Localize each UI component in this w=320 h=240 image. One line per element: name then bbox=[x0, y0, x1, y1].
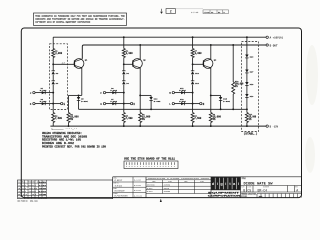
wire clamp diode to bus stage 3 bbox=[220, 100, 222, 109]
resistor R3 15,000 5% bbox=[67, 113, 70, 123]
svg-text:D-664: D-664 bbox=[223, 100, 230, 103]
svg-text:DEC3639: DEC3639 bbox=[147, 185, 155, 187]
svg-text:4-7-65: 4-7-65 bbox=[191, 11, 199, 14]
diode D11 D-664 bbox=[181, 91, 184, 94]
svg-text:3,000: 3,000 bbox=[195, 52, 203, 55]
node base junction stage 3 bbox=[192, 63, 194, 65]
svg-text:DEC FORM NO: DEC FORM NO bbox=[18, 200, 29, 202]
svg-text:D-664: D-664 bbox=[147, 191, 152, 193]
terminal E bbox=[61, 102, 63, 104]
svg-text:7,500: 7,500 bbox=[55, 117, 63, 120]
wire diode chain bbox=[246, 37, 248, 54]
wire -15V bus (bottom rail) bbox=[50, 125, 266, 127]
wire between diodes stage 3 bbox=[192, 75, 194, 81]
svg-text:(STABL.): (STABL.) bbox=[244, 131, 258, 135]
wire node line stage 3 bbox=[192, 37, 194, 48]
svg-text:D-664: D-664 bbox=[154, 100, 161, 103]
diode D7 D-664 bbox=[112, 102, 115, 105]
svg-text:R. BEST: R. BEST bbox=[114, 180, 123, 182]
terminal N bbox=[200, 102, 202, 104]
transistor & diode conversion chart bbox=[146, 180, 211, 194]
wire collector Q1 bbox=[81, 58, 83, 60]
svg-text:M110: M110 bbox=[39, 196, 47, 199]
svg-text:H.FLETCHER: H.FLETCHER bbox=[114, 196, 129, 198]
sheet alignment arrow bbox=[160, 199, 162, 202]
svg-text:DRA 102: DRA 102 bbox=[30, 199, 38, 202]
diode D1 D-664 bbox=[42, 91, 45, 94]
wire between diodes stage 2 bbox=[123, 75, 125, 81]
diode D4 bbox=[52, 80, 55, 82]
wire emitter down stage 3 bbox=[210, 95, 212, 112]
wire between diodes stage 1 bbox=[52, 75, 54, 81]
wire node line stage 2 mid bbox=[123, 58, 125, 71]
wire node line stage 1 bbox=[52, 37, 54, 48]
resistor R10 100,000 1% bbox=[232, 82, 235, 94]
diode D2 D-664 bbox=[42, 102, 45, 105]
scan shading margin bbox=[305, 45, 318, 173]
resistor R8 7,500 bbox=[191, 113, 194, 123]
wire diode to node stage 1 bbox=[45, 92, 53, 94]
revision reference strip bbox=[161, 9, 163, 14]
wire +10V bus (top rail) bbox=[53, 36, 266, 38]
wire input H bbox=[106, 103, 116, 105]
wire to terminal E stage 1 bbox=[53, 103, 60, 105]
wire input M bbox=[175, 92, 185, 94]
wire emitter junction stage 3 bbox=[210, 94, 212, 96]
wire node down to resistor stage 3 bbox=[192, 104, 194, 113]
proprietary note box bbox=[34, 13, 127, 25]
wire emitter to resistor leg stage 1 bbox=[69, 94, 82, 96]
svg-text:B.GURLEY: B.GURLEY bbox=[115, 191, 126, 193]
wire to terminal N stage 3 bbox=[193, 103, 200, 105]
wire base stage 3 bbox=[193, 63, 204, 65]
svg-text:D-662: D-662 bbox=[147, 188, 152, 190]
svg-text:PRINTED CIRCUIT REV. FOR C02 B: PRINTED CIRCUIT REV. FOR C02 BOARD IS 15… bbox=[42, 146, 107, 149]
svg-text:D-664: D-664 bbox=[179, 100, 186, 103]
wire node line stage 1 mid bbox=[52, 58, 54, 71]
diode D12 D-664 bbox=[181, 102, 184, 105]
wire diode to node stage 3 bbox=[185, 92, 193, 94]
svg-text:9-4-64: 9-4-64 bbox=[134, 179, 142, 182]
wire emitter Q2 bbox=[139, 68, 141, 96]
resistor R7 3,000 bbox=[191, 49, 194, 58]
svg-text:T. HALL: T. HALL bbox=[115, 184, 123, 187]
transistor Q2 bbox=[133, 59, 143, 69]
resistor R5 7,500 bbox=[122, 113, 125, 123]
svg-text:BM-C4: BM-C4 bbox=[258, 188, 268, 192]
parts list table bbox=[18, 180, 113, 199]
diode D18 bbox=[245, 82, 248, 85]
svg-text:i: i bbox=[225, 182, 226, 186]
svg-text:DIODES ARE D-662: DIODES ARE D-662 bbox=[42, 142, 75, 145]
svg-text:EQUIPMENT: EQUIPMENT bbox=[208, 192, 241, 194]
wire emitter Q3 bbox=[210, 68, 212, 96]
resistor R9 15,000 5% bbox=[209, 113, 212, 123]
svg-text:9-8-64: 9-8-64 bbox=[134, 184, 142, 187]
resistor R4 3,000 bbox=[122, 49, 125, 58]
svg-text:TRANSISTOR & DIODE CONVERSION: TRANSISTOR & DIODE CONVERSION CHART bbox=[148, 177, 211, 180]
diode D9 bbox=[122, 80, 125, 82]
diode D14 bbox=[191, 80, 194, 82]
svg-text:A +10V(A): A +10V(A) bbox=[270, 36, 284, 40]
wire node to input junctions stage 2 bbox=[123, 85, 125, 104]
wire collector Q2 bbox=[139, 45, 141, 59]
bottom band dividers bbox=[113, 176, 302, 178]
svg-text:D-664: D-664 bbox=[40, 89, 47, 92]
svg-text:B: B bbox=[243, 188, 245, 192]
wire clamp diode to bus stage 2 bbox=[150, 100, 152, 109]
svg-text:D OUT: D OUT bbox=[270, 44, 278, 47]
svg-text:A: A bbox=[296, 188, 298, 192]
svg-text:7,500: 7,500 bbox=[194, 117, 202, 120]
svg-text:CORPORATION: CORPORATION bbox=[208, 195, 241, 198]
diode D3 bbox=[52, 70, 55, 72]
svg-text:2: 2 bbox=[170, 10, 172, 14]
svg-text:ECO NO.: ECO NO. bbox=[241, 196, 247, 198]
svg-text:C3: C3 bbox=[211, 12, 213, 14]
digital logo block bbox=[211, 177, 241, 190]
diode D10 D-664 (clamp) bbox=[150, 95, 152, 97]
svg-text:TITLE: TITLE bbox=[242, 178, 246, 180]
svg-text:PRINTED CIRCUIT REV.: PRINTED CIRCUIT REV. bbox=[241, 194, 257, 196]
svg-text:7,500: 7,500 bbox=[126, 117, 134, 120]
wire diode to node stage 2 bbox=[116, 103, 124, 105]
node base junction stage 1 bbox=[52, 63, 54, 65]
resistor R2 7,500 bbox=[52, 113, 55, 123]
svg-text:DEC: DEC bbox=[184, 181, 187, 183]
svg-text:D-664: D-664 bbox=[40, 100, 47, 103]
wire divider to clamp bus bbox=[232, 94, 234, 109]
node base junction stage 2 bbox=[123, 63, 125, 65]
wire emitter-resistor vertical stage 1 bbox=[68, 95, 70, 112]
wire chain segments bbox=[246, 58, 248, 70]
svg-text:l: l bbox=[238, 182, 239, 186]
wire emitter junction stage 2 bbox=[139, 94, 141, 96]
drawn/checked signature block bbox=[113, 177, 146, 198]
svg-text:L—————— ····-··: L—————— ····-·· bbox=[51, 127, 77, 130]
svg-text:1N645: 1N645 bbox=[164, 188, 169, 190]
wire diode to node stage 3 bbox=[185, 103, 193, 105]
wire base stage 1 bbox=[53, 63, 74, 65]
svg-text:B -15V: B -15V bbox=[270, 125, 279, 128]
diode D19 bbox=[245, 94, 248, 97]
wire input F bbox=[106, 92, 116, 94]
wire node to input junctions stage 1 bbox=[52, 85, 54, 104]
wire diode to node stage 2 bbox=[116, 92, 124, 94]
diode D6 D-664 bbox=[112, 91, 115, 94]
svg-text:COPYRIGHT 1964 BY DIGITAL EQUI: COPYRIGHT 1964 BY DIGITAL EQUIPMENT CORP… bbox=[35, 20, 91, 23]
terminal B -15V bbox=[266, 125, 268, 127]
wire divider line bbox=[232, 45, 234, 82]
diode D13 bbox=[191, 70, 194, 72]
wire node down to resistor stage 2 bbox=[123, 104, 125, 113]
svg-text:B3: B3 bbox=[218, 12, 220, 14]
terminal D OUT bbox=[266, 44, 268, 46]
dashed network box stage 1 bbox=[50, 44, 68, 110]
wire node line stage 2 bbox=[123, 37, 125, 48]
svg-text:CS: CS bbox=[247, 188, 251, 192]
transistor Q1 bbox=[74, 59, 84, 69]
svg-text:DIODE GATE SW: DIODE GATE SW bbox=[244, 182, 274, 186]
wire input J bbox=[35, 92, 45, 94]
resistor R11 15,000 1% bbox=[245, 113, 248, 123]
wire to terminal K stage 2 bbox=[124, 103, 131, 105]
svg-text:USE THE ETCH BOARD OF THE R111: USE THE ETCH BOARD OF THE R111 bbox=[124, 158, 175, 161]
svg-text:9-8-64: 9-8-64 bbox=[134, 189, 142, 192]
wire node to input junctions stage 3 bbox=[192, 85, 194, 104]
diode D16 bbox=[245, 55, 248, 58]
wire clamp diode to bus stage 1 bbox=[78, 100, 80, 109]
terminal A +10V bbox=[266, 36, 268, 38]
svg-text:D-664: D-664 bbox=[179, 89, 186, 92]
svg-text:9-10-64: 9-10-64 bbox=[134, 194, 143, 197]
svg-text:4-7: 4-7 bbox=[62, 63, 65, 65]
wire OUT bus (second rail) bbox=[82, 45, 266, 59]
svg-text:3,000: 3,000 bbox=[126, 52, 134, 55]
wire input L bbox=[175, 103, 185, 105]
svg-text:3,000: 3,000 bbox=[55, 52, 63, 55]
terminal K bbox=[130, 102, 132, 104]
svg-text:D-664: D-664 bbox=[81, 100, 88, 103]
svg-text:1N3606: 1N3606 bbox=[164, 191, 170, 193]
diode D17 bbox=[245, 70, 248, 73]
wire diode to node stage 1 bbox=[45, 103, 53, 105]
diode D8 bbox=[122, 70, 125, 72]
wire emitter Q1 bbox=[81, 68, 83, 96]
transistor Q3 bbox=[203, 59, 213, 69]
wire collector Q3 bbox=[210, 45, 212, 59]
diode D15 D-664 (clamp) bbox=[220, 95, 222, 97]
resistor R1 3,000 bbox=[52, 49, 55, 58]
svg-text:D-664: D-664 bbox=[110, 89, 117, 92]
wire clamp bus bbox=[79, 108, 247, 110]
wire node down to resistor stage 1 bbox=[52, 104, 54, 113]
resistor R6 15,000 5% bbox=[139, 113, 142, 123]
drawing border frame bbox=[21, 28, 301, 198]
svg-text:2N3639: 2N3639 bbox=[164, 185, 170, 187]
diode D5 D-664 (clamp) bbox=[78, 95, 80, 97]
wire base stage 2 bbox=[124, 63, 133, 65]
connector pin diagram bbox=[124, 161, 178, 169]
svg-text:D-664: D-664 bbox=[110, 100, 117, 103]
wire node line stage 3 mid bbox=[192, 58, 194, 71]
svg-text:i: i bbox=[217, 182, 218, 186]
svg-text:DEC: DEC bbox=[152, 181, 155, 183]
svg-text:1-10-92C: 1-10-92C bbox=[204, 12, 210, 14]
wire emitter down stage 2 bbox=[139, 95, 141, 112]
wire input K bbox=[35, 103, 45, 105]
dashed box stabilizing network bbox=[242, 42, 259, 132]
